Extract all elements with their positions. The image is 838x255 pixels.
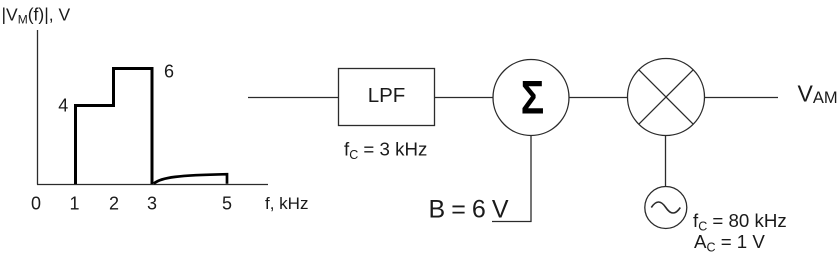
wire B input vertical [530,136,532,223]
spectrum staircase [76,69,153,185]
spectrum hump 3-5 kHz [154,174,227,184]
multiplier cross line 2 [639,70,693,124]
svg-text:B = 6 V: B = 6 V [429,195,509,223]
svg-text:6: 6 [164,62,174,82]
svg-text:1: 1 [69,193,79,213]
svg-text:5: 5 [222,193,232,213]
summer U2 circle [493,60,569,136]
svg-text:AC = 1 V: AC = 1 V [694,231,765,255]
svg-text:f, kHz: f, kHz [265,194,308,213]
LPF block U1 [339,69,435,126]
svg-text:0: 0 [31,193,41,213]
wire LPF to summer [435,97,494,99]
output wire [705,97,779,99]
svg-text:Σ: Σ [521,72,544,124]
oscillator U4 circle [645,187,687,229]
x-axis [37,184,268,186]
svg-text:2: 2 [109,193,119,213]
wire summer to multiplier [569,97,628,99]
axis label |VM(f)|, V [2,4,71,26]
svg-text:fC = 80 kHz: fC = 80 kHz [693,210,787,234]
svg-text:|VM(f)|, V: |VM(f)|, V [2,4,71,26]
svg-text:3: 3 [147,193,157,213]
multiplier U3 circle [628,59,705,136]
multiplier cross line 1 [639,70,693,124]
svg-text:4: 4 [58,96,68,116]
oscillator sine symbol [651,202,680,213]
wire B input horizontal [492,221,532,223]
wire multiplier to oscillator [665,136,667,187]
y-axis [37,30,39,185]
svg-text:LPF: LPF [368,84,406,107]
input wire [248,97,339,99]
